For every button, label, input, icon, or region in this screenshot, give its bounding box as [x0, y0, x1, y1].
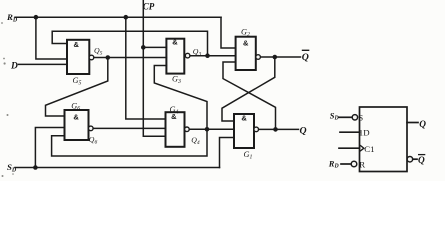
- wire Q cross to G2 input3: [223, 62, 276, 129]
- svg-text:Q4: Q4: [191, 136, 200, 147]
- wire CP branch to G3 input1: [143, 46, 166, 48]
- node Q junction: [273, 127, 278, 132]
- wire Qbar pin: [413, 158, 417, 160]
- wire Q5 branch to G6 input1: [46, 58, 108, 117]
- svg-text:G4: G4: [170, 105, 179, 116]
- node Q3 junction: [205, 53, 210, 58]
- svg-text:&: &: [241, 114, 247, 123]
- svg-text:Q3: Q3: [193, 47, 202, 58]
- nand gate G2 bubble: [256, 55, 261, 60]
- svg-text:&: &: [74, 40, 80, 49]
- nand gate G1 bubble: [254, 127, 259, 132]
- svg-text:D: D: [10, 61, 18, 71]
- nand gate G6 box: [65, 110, 89, 140]
- wire Q4 branch to G3 input3: [154, 66, 207, 130]
- nand gate G4 bubble: [185, 127, 190, 132]
- wire RD horizontal rail: [15, 16, 221, 18]
- svg-text:1D: 1D: [359, 128, 370, 138]
- svg-text:G2: G2: [241, 28, 250, 39]
- wire SD horizontal rail: [15, 167, 220, 169]
- wire Qbar output: [260, 56, 300, 58]
- scan artifact dots left: [1, 22, 14, 177]
- wire RD branch to G5 input2: [36, 17, 67, 59]
- svg-text:SD: SD: [7, 162, 17, 174]
- nand gate G1 box: [234, 114, 254, 148]
- svg-text:Q: Q: [300, 125, 307, 136]
- svg-text:G3: G3: [172, 74, 181, 85]
- svg-text:C1: C1: [364, 144, 374, 154]
- svg-text:S: S: [358, 112, 363, 122]
- svg-text:SD: SD: [330, 110, 340, 121]
- wire SD to S pin: [339, 116, 352, 118]
- pin S bubble: [352, 115, 357, 120]
- nand gate G6 bubble: [89, 126, 94, 131]
- pin R bubble: [351, 161, 357, 167]
- wire RD end to G2 input1: [221, 17, 236, 48]
- svg-text:RD: RD: [328, 158, 340, 169]
- pin C1 dynamic triangle: [360, 145, 364, 151]
- pin Qbar bubble: [407, 156, 413, 162]
- nand gate G5 box: [67, 40, 89, 74]
- node RD-G4 junction: [124, 15, 129, 20]
- wire Q pin: [407, 122, 418, 124]
- wire C1 pin: [339, 147, 360, 149]
- wire SD branch to G6 input2: [35, 128, 64, 168]
- node CP-G3 junction: [141, 45, 146, 50]
- svg-text:G1: G1: [244, 150, 253, 161]
- flip-flop symbol box U1: [360, 107, 408, 172]
- wire Q4 branch to G6 input3: [52, 129, 207, 156]
- node Qbar junction: [273, 55, 278, 60]
- wire Qbar cross to G1 input1: [222, 57, 275, 121]
- svg-text:G5: G5: [73, 76, 82, 87]
- svg-text:RD: RD: [6, 12, 18, 24]
- wire Q6 output to G4 input2: [93, 127, 165, 129]
- node Q5 junction: [106, 55, 111, 60]
- nand gate G5 bubble: [89, 55, 94, 60]
- overline of Qbar pin: [418, 154, 425, 156]
- wire RD to R pin: [341, 163, 351, 165]
- svg-text:Q6: Q6: [89, 135, 98, 146]
- wire Q3 output to G2 input2: [190, 55, 236, 57]
- svg-text:R: R: [359, 159, 365, 169]
- wire Q5 output to G3 input2: [94, 57, 167, 59]
- svg-text:CP: CP: [143, 2, 155, 12]
- wire RD branch to G4 input1: [126, 17, 166, 119]
- wire Q4 output to G1 input2: [189, 128, 234, 130]
- wire CP vertical to G4 input3: [143, 0, 165, 136]
- node SD-G6 junction: [33, 165, 38, 170]
- nand gate G2 box: [236, 37, 256, 70]
- node Q4 junction: [205, 127, 210, 132]
- svg-text:Q5: Q5: [94, 46, 103, 57]
- nand gate G4 box: [166, 112, 185, 147]
- wire 1D pin: [340, 131, 360, 133]
- wire Q output: [259, 128, 299, 130]
- svg-text:Q: Q: [418, 156, 425, 166]
- nand gate G3 bubble: [185, 53, 190, 58]
- svg-text:Q: Q: [302, 52, 309, 63]
- wire Q3 feedback to G5 input1: [52, 31, 207, 56]
- wire SD end to G1 input3: [220, 138, 235, 168]
- svg-text:G6: G6: [71, 101, 80, 112]
- node RD-G5 junction: [34, 15, 39, 20]
- svg-text:&: &: [73, 113, 79, 122]
- nand gate G3 box: [166, 39, 184, 74]
- wire D to G5 input3: [19, 63, 68, 65]
- overline of Qbar: [302, 49, 310, 51]
- svg-text:&: &: [172, 38, 178, 47]
- svg-text:&: &: [243, 38, 249, 47]
- svg-text:Q: Q: [419, 120, 426, 130]
